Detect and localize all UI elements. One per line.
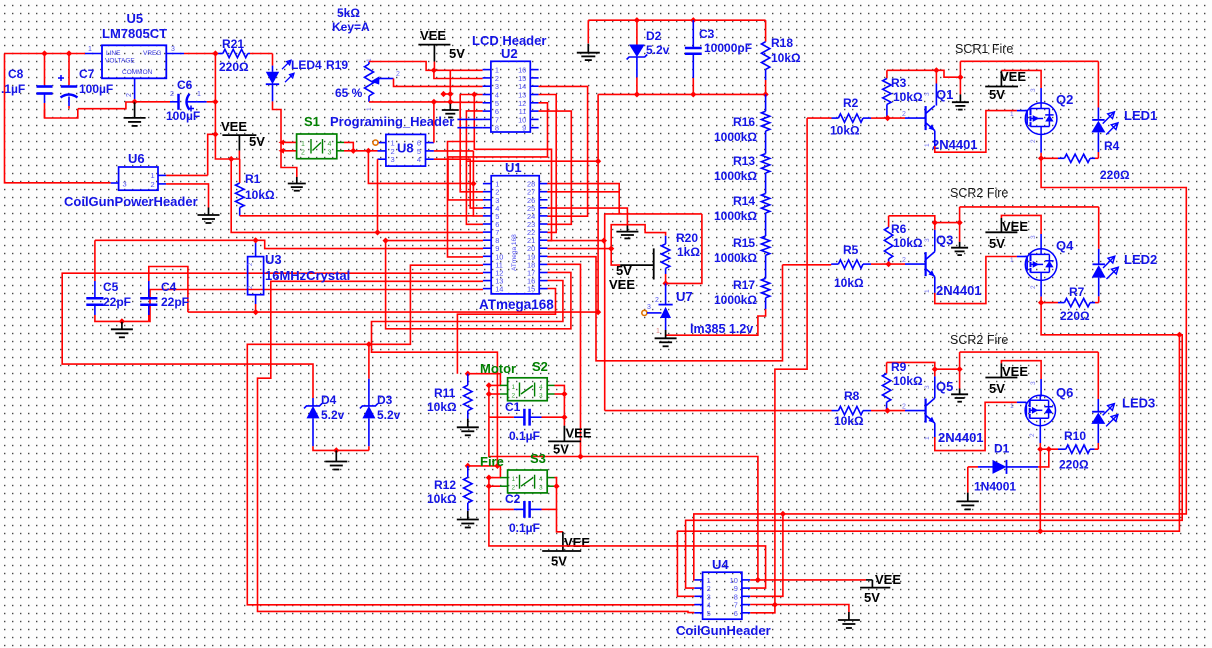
node junction pin8 branch: [382, 237, 388, 243]
svg-text:5V: 5V: [989, 381, 1005, 396]
power VEE 5V symbol right of U4: [860, 572, 901, 605]
ground below R12: [457, 511, 479, 528]
node junction pin21 R8 column: [601, 237, 607, 243]
power VEE 5V symbol above U2: [418, 28, 465, 70]
node junction Q5 base: [884, 407, 890, 413]
wire U8 pin3 south to U1 pin7 line: [377, 159, 379, 232]
svg-text:8: 8: [495, 124, 499, 133]
wire L3 SCR3 output to U4 pin3: [677, 449, 1040, 596]
svg-text:R4: R4: [1104, 139, 1120, 153]
svg-text:100µF: 100µF: [79, 82, 113, 96]
svg-text:R21: R21: [222, 37, 244, 51]
svg-text:R19: R19: [326, 58, 348, 72]
ground below S1: [288, 177, 306, 191]
wire VEE to Q4 drain: [1001, 215, 1041, 248]
wire Q5 collector: [934, 369, 936, 398]
wire SCR1 rail left down: [959, 61, 961, 77]
wire R19 bottom to ground node: [369, 101, 450, 103]
node junction L3 L2 link: [1037, 332, 1182, 535]
ground below D4 D3: [325, 451, 347, 470]
svg-text:C5: C5: [103, 280, 119, 294]
node junction Q1 base: [884, 115, 890, 121]
node junction R12 top: [465, 463, 501, 469]
wire S1 pin4 to pin3 node: [344, 142, 353, 150]
wire Fire line to U4 pin9: [489, 509, 766, 588]
wire U1 pin7 long from VEE node: [231, 159, 483, 232]
wire R9 loop top: [887, 362, 960, 369]
power VEE 5V symbol at C2: [542, 532, 590, 569]
svg-text:1000kΩ: 1000kΩ: [714, 293, 757, 307]
node junction S2 right: [561, 391, 567, 420]
svg-text:LED2: LED2: [1124, 252, 1157, 267]
svg-text:CoilGunPowerHeader: CoilGunPowerHeader: [64, 194, 198, 209]
label ATmega168: [479, 297, 554, 312]
wire crystal bottom line: [256, 304, 598, 312]
svg-text:9: 9: [522, 124, 526, 133]
wire R3 loop top: [887, 70, 961, 77]
LED LED3: [1091, 352, 1118, 449]
wire U6 pin1: [166, 174, 208, 176]
svg-text:10kΩ: 10kΩ: [771, 51, 801, 65]
svg-text:R11: R11: [434, 386, 456, 400]
svg-text:VEE: VEE: [875, 572, 901, 587]
wire Q1 collector: [935, 70, 937, 105]
svg-text:6: 6: [734, 609, 738, 618]
svg-text:2: 2: [151, 180, 155, 189]
wire U1 pin21 east to R8 column: [547, 240, 604, 242]
svg-text:3: 3: [1030, 235, 1037, 239]
svg-text:10kΩ: 10kΩ: [427, 400, 457, 414]
svg-text:Fire: Fire: [480, 454, 504, 469]
wire Q5 emitter to Q6 gate: [935, 402, 1027, 450]
svg-text:1: 1: [88, 46, 92, 53]
resistor R18: [761, 20, 801, 94]
svg-text:5V: 5V: [249, 134, 265, 149]
wire rail stub to ground: [587, 20, 589, 43]
wire U1 pin8 line: [386, 240, 483, 242]
label LED1: [1124, 108, 1157, 123]
svg-text:D4: D4: [321, 393, 337, 407]
wire bus below U2: [467, 160, 598, 162]
node junction C8 top: [41, 50, 47, 56]
wire Q3 emitter to Q4 gate: [935, 257, 1027, 304]
svg-text:1: 1: [366, 107, 373, 111]
node junction Q5 collector top: [932, 366, 938, 372]
wire U2 pin4 wrap bus: [474, 95, 551, 241]
label S3: [530, 451, 546, 466]
capacitor C8: [1, 54, 78, 119]
resistor R2: [807, 96, 882, 138]
wire crystal line west jog to C4: [149, 267, 256, 313]
wire R20 bottom loop: [666, 214, 702, 284]
wire U8 pin6 riser to R19 bottom: [433, 102, 435, 142]
resistor R6: [884, 216, 923, 264]
capacitor C4: [140, 280, 189, 321]
svg-text:1N4001: 1N4001: [974, 480, 1016, 494]
wire U6 pin1 riser: [208, 134, 216, 175]
wire U1 pin17 to pin8 branch: [386, 241, 571, 329]
resistor R11: [427, 374, 472, 419]
svg-text:15: 15: [527, 285, 535, 294]
ground below Q5 rail node: [951, 369, 968, 402]
MOSFET Q2: [1025, 103, 1057, 135]
node junction Q6 source: [1037, 446, 1052, 452]
wire S2 right pins column: [555, 385, 565, 425]
node junction C5 C4 ground: [119, 318, 125, 324]
svg-text:C4: C4: [161, 280, 177, 294]
svg-text:C7: C7: [79, 67, 95, 81]
ground below U4 pin7 wire: [838, 612, 860, 628]
node junction Q5 collector rail: [956, 366, 962, 372]
svg-text:10kΩ: 10kΩ: [893, 90, 923, 104]
wire VEE to Q6 drain: [1001, 361, 1041, 397]
svg-text:U3: U3: [265, 252, 282, 267]
svg-text:5V: 5V: [616, 263, 632, 278]
svg-text:3: 3: [1030, 88, 1037, 92]
svg-text:VEE: VEE: [1002, 364, 1028, 379]
label 5kΩ Key=A: [332, 6, 370, 34]
node junction D4 D3 ground: [333, 447, 339, 453]
node junction C3 top: [690, 17, 696, 23]
label S1: [304, 114, 320, 129]
wire R20 node to 5V symbol: [611, 249, 620, 266]
node junction Q2 source R4: [1038, 155, 1044, 161]
node junction at C6/R21 column: [212, 131, 218, 137]
wire Q6 source: [1029, 426, 1040, 450]
wire U1 pin19 to ladder sense line: [547, 257, 782, 361]
svg-text:1000kΩ: 1000kΩ: [714, 130, 757, 144]
node junction S3 left: [486, 474, 492, 489]
svg-text:1: 1: [151, 171, 155, 180]
node junction pin18 motor line: [577, 453, 583, 459]
node junction S2 left: [486, 382, 492, 397]
svg-text:C3: C3: [699, 27, 715, 41]
node junction R21 left: [212, 50, 218, 56]
label CoilGunPowerHeader: [64, 194, 198, 209]
svg-text:VEE: VEE: [566, 426, 592, 441]
capacitor C6 electrolytic: [135, 78, 216, 123]
wire R11 junction to S2 pin1: [468, 374, 501, 386]
wire sense corner to R5: [783, 264, 832, 266]
wire LED4 ground column stubs to S1: [279, 140, 297, 154]
svg-text:R13: R13: [733, 154, 755, 168]
svg-text:Q3: Q3: [936, 233, 953, 248]
svg-text:10kΩ: 10kΩ: [245, 188, 275, 202]
svg-text:3: 3: [924, 238, 931, 242]
svg-text:2: 2: [126, 93, 133, 97]
svg-text:0.1µF: 0.1µF: [509, 429, 540, 443]
capacitor C3: [685, 20, 752, 94]
svg-text:5V: 5V: [989, 236, 1005, 251]
svg-text:SCR1 Fire: SCR1 Fire: [955, 42, 1013, 56]
node junction R19 bottom U8 riser: [431, 91, 454, 105]
capacitor C2: [489, 492, 542, 535]
marker unconnected U7 pin3: [642, 304, 662, 316]
label SCR3 Fire: [950, 333, 1008, 347]
node junction Q3 collector top: [932, 219, 938, 225]
svg-text:4: 4: [417, 155, 421, 164]
svg-text:14: 14: [495, 285, 503, 294]
resistor R16: [714, 94, 770, 144]
wire R17 bottom to U7 ground node: [666, 309, 766, 335]
resistor R10: [1040, 429, 1098, 472]
svg-text:10kΩ: 10kΩ: [834, 276, 864, 290]
svg-text:1: 1: [512, 384, 516, 391]
ground below Q3 rail node: [951, 223, 968, 256]
svg-text:3: 3: [171, 46, 175, 53]
wire bottom rail D2 C3 R18: [598, 93, 766, 95]
svg-text:ATmega 168: ATmega 168: [511, 234, 518, 271]
switch S1 box: [297, 134, 344, 159]
wire SCR2 rail left down: [959, 207, 961, 223]
svg-text:Q1: Q1: [936, 87, 953, 102]
wire U5 pin3 to R21: [184, 53, 215, 55]
power VEE 5V symbol SCR3: [985, 363, 1028, 396]
svg-text:S2: S2: [532, 359, 548, 374]
svg-text:R3: R3: [891, 76, 907, 90]
svg-text:U5: U5: [127, 11, 144, 26]
label Programing_Header: [330, 114, 454, 129]
node junction U8 pin3 on pin7 line: [374, 229, 380, 235]
wire L3 east link to L2: [1040, 335, 1179, 531]
node junction R20 bottom: [662, 280, 668, 286]
wire Motor line to U4 pin10: [489, 417, 758, 580]
wire VEE node rail: [215, 134, 239, 159]
node junction U5 common: [131, 99, 137, 105]
svg-text:R7: R7: [1069, 285, 1085, 299]
wire U1 pin25 to ground: [547, 208, 627, 224]
ground right of U1: [616, 225, 638, 239]
resistor R4: [1041, 139, 1130, 182]
svg-text:VEE: VEE: [609, 277, 635, 292]
capacitor C7 electrolytic: [58, 54, 113, 109]
resistor R7: [1041, 285, 1099, 323]
wire S3 right pins column: [555, 478, 557, 510]
label SCR1 Fire: [955, 42, 1013, 56]
wire U1 pin15 to motor feeder: [457, 289, 555, 374]
svg-text:LED4: LED4: [291, 58, 322, 72]
wire C2 right to VEE: [542, 509, 563, 531]
svg-text:VREG: VREG: [143, 50, 161, 57]
IC U2 LCD Header box: [483, 61, 539, 132]
wire R21 column down: [214, 54, 216, 135]
wire ground column U2 area: [444, 70, 451, 102]
node junction bottom rail: [634, 91, 769, 97]
wire Q2 source: [1030, 135, 1041, 159]
wire U8 pin5 east: [434, 150, 474, 152]
resistor R17: [714, 255, 770, 309]
svg-text:COMMON: COMMON: [122, 69, 153, 76]
wire SCR2 top rail: [960, 206, 1099, 208]
wire R1 bottom to U1 pin5: [240, 215, 474, 217]
resistor R1: [236, 159, 276, 216]
svg-text:Programing_Header: Programing_Header: [330, 114, 454, 129]
svg-text:2N4401: 2N4401: [938, 430, 984, 445]
node junction U4 pin8 on L1: [780, 511, 786, 517]
node junction U1 pin1 line: [470, 180, 476, 186]
label U4: [712, 557, 729, 572]
label 2N4401 Q1: [932, 137, 978, 152]
resistor R14: [714, 173, 770, 223]
ground below top rail: [577, 44, 600, 60]
wire U1 pin27 east: [547, 192, 619, 214]
svg-text:U4: U4: [712, 557, 729, 572]
ground below U5: [124, 102, 146, 126]
wire L2 SCR2 output to U4 pin2: [686, 303, 1183, 588]
label Fire: [480, 454, 504, 469]
label LCD Header: [472, 33, 546, 48]
wire U2 pin7 stub: [457, 118, 482, 120]
crystal U3 box: [248, 240, 264, 304]
node junction Q1 collector rail: [957, 74, 963, 80]
ground below U7: [655, 330, 677, 346]
svg-text:2: 2: [512, 393, 516, 400]
svg-text:0.1µF: 0.1µF: [509, 521, 540, 535]
transistor Q1: [882, 92, 935, 147]
power VEE 5V symbol at C1: [548, 426, 592, 457]
wire U2 pin1: [434, 69, 483, 71]
svg-text:10000pF: 10000pF: [704, 41, 752, 55]
capacitor C5: [86, 280, 149, 321]
node junction D3 top: [366, 341, 372, 347]
label U1: [505, 160, 522, 175]
ground below Q1 rail node: [952, 77, 969, 109]
wire U1 pin11 to wire A: [247, 265, 694, 605]
svg-text:U8: U8: [397, 141, 414, 156]
svg-text:2: 2: [301, 150, 305, 157]
svg-text:1: 1: [656, 328, 660, 335]
wire SCR1 top rail: [960, 60, 1098, 62]
svg-text:1000kΩ: 1000kΩ: [714, 169, 757, 183]
wire LED4 cathode to S1 column: [273, 101, 297, 177]
svg-text:LED1: LED1: [1124, 108, 1157, 123]
svg-text:16MHzCrystal: 16MHzCrystal: [265, 268, 350, 283]
svg-text:VEE: VEE: [564, 535, 590, 550]
svg-text:Q5: Q5: [936, 379, 953, 394]
svg-text:3: 3: [1030, 381, 1037, 385]
node junction crystal bottom: [253, 309, 259, 315]
label S2: [532, 359, 548, 374]
svg-text:5.2v: 5.2v: [321, 408, 345, 422]
wire SCR3 top rail: [960, 351, 1099, 353]
node junction Q3 collector rail: [956, 219, 962, 225]
svg-text:1: 1: [197, 91, 201, 98]
label Q5: [936, 379, 953, 394]
svg-text:R2: R2: [843, 96, 859, 110]
wire U1 pin14 to C5 ground rail: [149, 290, 483, 322]
MOSFET Q4: [1025, 249, 1057, 281]
svg-text:LINE: LINE: [106, 50, 121, 57]
wire top rail D2 C3 R18: [588, 19, 765, 21]
svg-text:R12: R12: [434, 478, 456, 492]
node junction VEE to U2 pin1: [431, 67, 437, 73]
node junction S1 right: [350, 148, 371, 154]
svg-text:22pF: 22pF: [103, 295, 131, 309]
LED LED2: [1092, 207, 1119, 303]
wire U2 pin6 bus to U1 pin6: [466, 111, 483, 224]
wire L1 SCR1 output to U4 pin1: [694, 158, 1187, 580]
wire U1 pin20 to R20 junction: [547, 248, 611, 250]
zener diode D2: [627, 20, 670, 94]
wire S2 left column: [489, 385, 500, 417]
node junction R20 U1 pin20: [608, 245, 614, 251]
wire S3 left column: [489, 478, 500, 510]
LED LED4: [266, 54, 322, 102]
wire Q3 collector: [934, 223, 936, 252]
IC U1 ATmega168 box: [483, 176, 548, 294]
switch S2 box: [500, 378, 555, 401]
svg-text:5V: 5V: [553, 442, 569, 457]
svg-text:2: 2: [396, 71, 400, 78]
wire R20 loop top: [605, 213, 702, 215]
diode D1: [968, 442, 1049, 494]
svg-text:5V: 5V: [989, 87, 1005, 102]
svg-text:3: 3: [539, 393, 543, 400]
svg-text:R9: R9: [891, 360, 907, 374]
svg-text:S1: S1: [304, 114, 320, 129]
svg-text:U1: U1: [505, 160, 522, 175]
svg-text:4: 4: [328, 141, 332, 148]
wire U2 pin11 bus to U1 pin23: [539, 111, 572, 224]
svg-text:R10: R10: [1064, 429, 1086, 443]
shunt reference U7: [655, 283, 753, 336]
svg-text:LM7805CT: LM7805CT: [102, 26, 167, 41]
svg-text:1: 1: [924, 289, 931, 293]
svg-text:10kΩ: 10kΩ: [834, 414, 864, 428]
node junction S3 right: [553, 483, 559, 489]
svg-text:5V: 5V: [551, 554, 567, 569]
zener diode D4: [304, 393, 369, 450]
svg-text:1: 1: [301, 141, 305, 148]
ground below U6 pin2: [198, 208, 220, 224]
transistor Q3: [882, 238, 935, 293]
svg-text:220Ω: 220Ω: [1100, 168, 1130, 182]
wire U5 common to ground rail: [45, 102, 135, 118]
svg-text:1: 1: [1010, 111, 1014, 118]
node junction U4 pin6 col on pin7 line: [772, 602, 778, 608]
wire Q4 source: [1030, 280, 1041, 302]
svg-text:3: 3: [328, 150, 332, 157]
svg-text:C8: C8: [8, 67, 24, 81]
wire crystal jog to U1 pin9: [256, 240, 483, 248]
node junction crystal top: [252, 237, 258, 243]
svg-text:3: 3: [391, 155, 395, 164]
svg-text:SCR2 Fire: SCR2 Fire: [950, 333, 1008, 347]
svg-text:220Ω: 220Ω: [1060, 309, 1090, 323]
node junction Q4 source R7: [1038, 299, 1044, 305]
svg-text:5.2v: 5.2v: [377, 408, 401, 422]
svg-text:lm385 1.2v: lm385 1.2v: [690, 322, 753, 336]
wire R19 top to VEE junction: [369, 62, 434, 71]
svg-text:VEE: VEE: [1002, 219, 1028, 234]
svg-text:VOLTAGE: VOLTAGE: [105, 58, 135, 65]
svg-text:65 %: 65 %: [335, 86, 363, 100]
svg-text:R1: R1: [245, 172, 261, 186]
svg-text:D2: D2: [646, 29, 662, 43]
svg-text:3: 3: [924, 92, 931, 96]
capacitor C1: [489, 400, 542, 443]
svg-text:Motor: Motor: [480, 361, 516, 376]
label U3: [265, 252, 350, 283]
label Q3: [936, 233, 953, 248]
svg-text:2: 2: [1029, 433, 1036, 437]
svg-text:2: 2: [902, 111, 906, 118]
wire U6 pin2 to ground: [166, 184, 208, 208]
marker unconnected U8 pin1: [373, 140, 378, 145]
svg-text:U6: U6: [128, 151, 145, 166]
node junction R11 top: [465, 371, 471, 377]
svg-text:4: 4: [539, 476, 543, 483]
